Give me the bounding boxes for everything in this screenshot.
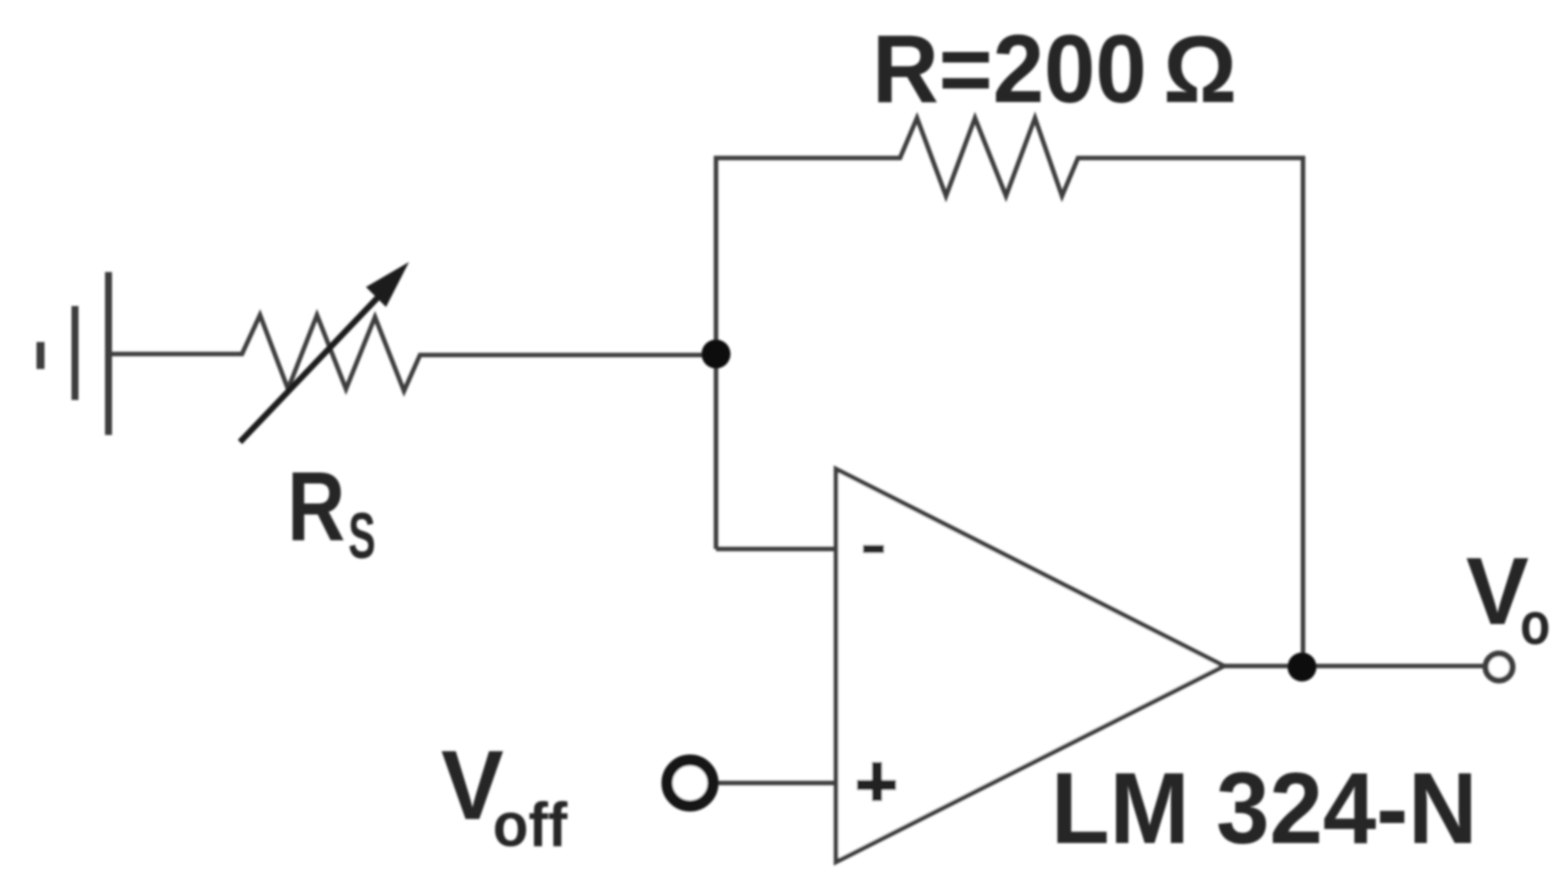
svg-text:Ω: Ω bbox=[1163, 17, 1237, 123]
svg-text:o: o bbox=[1520, 591, 1550, 657]
svg-text:R: R bbox=[287, 452, 345, 562]
svg-text:off: off bbox=[493, 789, 568, 859]
svg-text:LM 324-N: LM 324-N bbox=[1051, 752, 1477, 865]
svg-text:S: S bbox=[348, 501, 375, 573]
svg-text:R=200: R=200 bbox=[872, 15, 1147, 122]
